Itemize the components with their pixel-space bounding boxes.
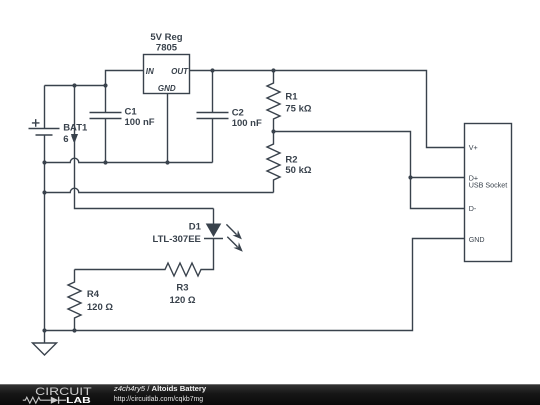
svg-text:z4ch4ry5 / Altoids Battery: z4ch4ry5 / Altoids Battery (113, 384, 207, 393)
svg-text:D1: D1 (189, 221, 202, 232)
node: C2 top on +5V rail (210, 68, 214, 72)
node: battery- / ground rail junction (42, 328, 46, 332)
svg-text:100 nF: 100 nF (125, 117, 155, 128)
label D1 value (153, 221, 202, 245)
svg-text:120 Ω: 120 Ω (87, 302, 113, 313)
resistor R4 (68, 270, 81, 331)
svg-text:R4: R4 (87, 289, 100, 300)
svg-text:D-: D- (469, 205, 477, 213)
node: R1/R2 divider midpoint (271, 129, 275, 133)
resistor R1 (267, 71, 280, 132)
footer title text (113, 384, 207, 403)
wire: battery positive horizontal (45, 85, 106, 87)
svg-text:R1: R1 (285, 91, 298, 102)
wire: USB GND stub, down and along bottom ground rail (45, 239, 465, 331)
wire: 7805 OUT along top +5V rail, corner down to USB V+ pin (190, 71, 465, 148)
svg-text:120 Ω: 120 Ω (169, 295, 195, 306)
footer bar (0, 384, 540, 405)
label 5V Reg 7805 (150, 32, 182, 54)
svg-text:OUT: OUT (171, 67, 189, 76)
label C2 value (232, 108, 262, 129)
node: 7805 GND on upper ground rail (165, 160, 169, 164)
wire: +6V vertical feed down and right to LED anode (75, 86, 214, 209)
resistor R3 in wire from R4 top to LED cathode (75, 239, 214, 277)
label R4 value (87, 289, 113, 313)
svg-text:50 kΩ: 50 kΩ (285, 165, 311, 176)
svg-text:75 kΩ: 75 kΩ (285, 104, 311, 115)
USB socket box (465, 124, 512, 262)
wire: lower return rail from battery- to R2 bottom with hop (45, 188, 274, 192)
resistor R2 (267, 132, 280, 193)
node: C1 on upper ground rail (103, 160, 107, 164)
label C1 value (125, 107, 155, 129)
svg-text:BAT1: BAT1 (63, 122, 88, 133)
light emission arrows (226, 224, 236, 234)
node: R1 top on +5V rail (271, 68, 275, 72)
node: R4 bottom on ground rail (72, 328, 76, 332)
ground symbol (33, 331, 57, 356)
wire: 7805 IN left and corner down to battery+ node (106, 71, 144, 86)
battery BAT1 (29, 86, 60, 331)
svg-text:LAB: LAB (66, 395, 91, 405)
label R3 value (169, 283, 195, 306)
node: battery+ / LED feed junction (72, 83, 76, 87)
label BAT1 value (63, 122, 88, 145)
node: D+ junction (408, 175, 412, 179)
node: battery+ / C1 / regulator IN junction (103, 83, 107, 87)
svg-text:7805: 7805 (156, 43, 178, 54)
wire: divider midpoint right, down to USB D+ and D- pins (274, 132, 465, 209)
svg-text:R2: R2 (285, 154, 297, 165)
wire: 7805 GND lead down to ground rail (167, 94, 169, 163)
svg-text:USB Socket: USB Socket (469, 181, 508, 189)
LED D1 (204, 209, 243, 252)
svg-text:IN: IN (146, 67, 154, 76)
label R2 value (285, 154, 311, 176)
svg-text:R3: R3 (176, 283, 188, 294)
svg-text:LTL-307EE: LTL-307EE (153, 234, 201, 245)
capacitor C1 (90, 86, 122, 163)
svg-text:C1: C1 (125, 107, 138, 118)
voltage regulator 7805 box (144, 55, 190, 94)
CircuitLab logo (23, 386, 93, 405)
wire: upper ground rail with hop over battery feed (45, 158, 213, 162)
svg-text:GND: GND (469, 236, 485, 244)
label R1 value (285, 91, 311, 114)
svg-text:100 nF: 100 nF (232, 118, 262, 129)
svg-text:V+: V+ (469, 144, 478, 152)
node: battery- on upper ground rail (42, 160, 46, 164)
node: battery- on lower return rail (42, 190, 46, 194)
svg-text:5V Reg: 5V Reg (150, 32, 182, 43)
voltage polarity arrow on battery feed wire (71, 134, 78, 142)
capacitor C2 (197, 71, 229, 163)
svg-text:GND: GND (158, 84, 176, 93)
svg-text:http://circuitlab.com/cqkb7mg: http://circuitlab.com/cqkb7mg (114, 396, 203, 403)
